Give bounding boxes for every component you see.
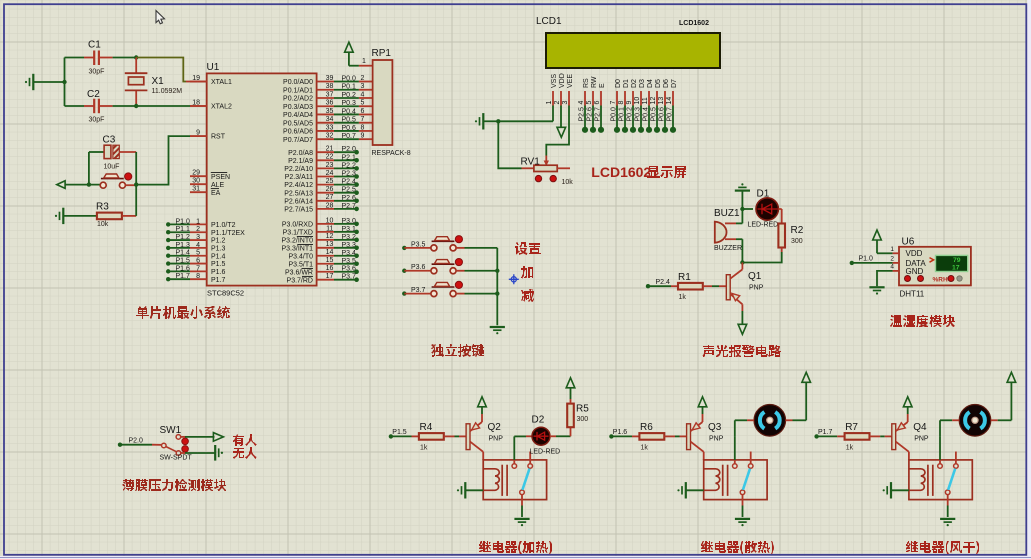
svg-text:D7: D7 [671, 79, 678, 88]
svg-text:SW-SPDT: SW-SPDT [160, 455, 193, 462]
svg-text:D0: D0 [615, 79, 622, 88]
buzzer BUZ1 [741, 209, 743, 223]
svg-text:XTAL1: XTAL1 [211, 79, 232, 86]
svg-text:4: 4 [196, 242, 200, 249]
svg-text:D6: D6 [663, 79, 670, 88]
svg-text:U1: U1 [207, 62, 220, 73]
power VCC (R5) [570, 388, 572, 399]
svg-text:9: 9 [196, 130, 200, 137]
svg-text:EA: EA [211, 190, 221, 197]
ground (keys) [490, 326, 505, 328]
ground (R3) [62, 208, 64, 224]
resistor R5 [570, 427, 572, 431]
wire SW1 NO [181, 436, 185, 438]
relay box [483, 460, 546, 500]
svg-text:P1.5: P1.5 [176, 258, 191, 265]
svg-text:22: 22 [326, 154, 334, 161]
svg-text:RST: RST [211, 134, 226, 141]
wire button right [125, 184, 136, 186]
svg-text:P1.1: P1.1 [176, 226, 191, 233]
svg-text:35: 35 [326, 108, 334, 115]
svg-text:PNP: PNP [489, 436, 504, 443]
label inc [521, 266, 533, 279]
svg-text:P1.3: P1.3 [211, 245, 226, 252]
wire D2 to R5 [550, 435, 556, 437]
push buttons set/inc/dec [402, 246, 406, 250]
svg-text:C3: C3 [103, 135, 116, 146]
relay lever [522, 469, 529, 490]
svg-text:VEE: VEE [567, 74, 574, 88]
svg-text:11: 11 [326, 225, 333, 232]
wire relay common down [947, 495, 949, 506]
svg-text:30: 30 [192, 178, 200, 185]
potentiometer RV1 wiper [545, 156, 547, 164]
wire Q3 collector [703, 452, 705, 460]
power VCC (motor) [805, 382, 807, 420]
ground (LCD VSS) [482, 113, 484, 129]
svg-text:R1: R1 [678, 272, 691, 283]
svg-text:5: 5 [586, 101, 593, 105]
resistor R4 [412, 435, 419, 437]
svg-text:1: 1 [890, 246, 894, 253]
svg-text:P2.6/A14: P2.6/A14 [284, 198, 313, 205]
svg-text:17: 17 [326, 273, 334, 280]
svg-text:24: 24 [326, 170, 334, 177]
power VCC (RP1) [345, 42, 354, 52]
mcu U1 P2 pins [317, 151, 334, 153]
switch SW1 [162, 443, 167, 448]
title relay heat [479, 541, 552, 554]
relay contacts [938, 464, 943, 469]
svg-text:P1.7: P1.7 [176, 273, 191, 280]
svg-text:BUZZER: BUZZER [714, 245, 742, 252]
capacitor C1 [93, 51, 95, 66]
ground (XTAL caps) [32, 74, 34, 90]
label set [515, 242, 541, 255]
wire C3 left down [88, 152, 90, 185]
svg-text:C1: C1 [88, 40, 101, 51]
svg-text:P3.4/T0: P3.4/T0 [288, 253, 313, 260]
title pressure section [122, 479, 226, 491]
transistor Q4 [892, 424, 896, 450]
led D1 [742, 208, 753, 210]
svg-text:P0.7: P0.7 [666, 107, 673, 122]
svg-text:P3.1/TXD: P3.1/TXD [283, 229, 313, 236]
resistor R1 [671, 285, 678, 287]
svg-text:P1.0: P1.0 [859, 256, 874, 263]
svg-text:P2.5/A13: P2.5/A13 [284, 190, 313, 197]
arrow reset out [57, 181, 65, 189]
svg-text:R5: R5 [576, 404, 589, 415]
svg-text:GND: GND [906, 267, 924, 276]
title MCU section [136, 306, 230, 319]
svg-text:P3.5/T1: P3.5/T1 [288, 261, 313, 268]
resistor R7 [837, 435, 844, 437]
svg-text:P0.5: P0.5 [650, 107, 657, 122]
svg-text:P1.0/T2: P1.0/T2 [211, 222, 236, 229]
mouse cursor [156, 11, 165, 24]
svg-text:P1.0: P1.0 [176, 218, 191, 225]
label dec [521, 289, 534, 302]
wire P1.5 [389, 434, 393, 438]
ground (relay common) [514, 518, 529, 520]
svg-text:P1.2: P1.2 [176, 234, 191, 241]
svg-text:7: 7 [610, 101, 617, 105]
svg-text:P1.7: P1.7 [211, 277, 226, 284]
wire C1 left [65, 57, 85, 59]
resistor R3 [97, 213, 122, 220]
svg-text:P3.7/RD: P3.7/RD [287, 277, 313, 284]
svg-text:79: 79 [953, 257, 961, 264]
svg-text:P0.4/AD4: P0.4/AD4 [283, 112, 313, 119]
svg-text:P1.2: P1.2 [211, 238, 226, 245]
svg-text:3: 3 [562, 101, 569, 105]
svg-text:P0.4: P0.4 [642, 107, 649, 122]
svg-text:U6: U6 [902, 237, 915, 248]
svg-text:P0.3/AD3: P0.3/AD3 [283, 104, 313, 111]
power VCC (U6) [873, 230, 882, 240]
svg-text:30pF: 30pF [89, 117, 105, 124]
push button RESET [101, 178, 124, 180]
svg-text:P0.3: P0.3 [634, 107, 641, 122]
ground (relay coil) [685, 482, 687, 498]
svg-text:P1.6: P1.6 [613, 429, 628, 436]
svg-text:VDD: VDD [559, 73, 566, 88]
capacitor C2 [93, 99, 95, 114]
svg-text:P0.2/AD2: P0.2/AD2 [283, 96, 313, 103]
wire relay common down [521, 495, 523, 506]
svg-text:P1.6: P1.6 [176, 265, 191, 272]
svg-text:Q3: Q3 [708, 422, 722, 433]
mcu U1 P0 pins + wires to RP1 [317, 81, 334, 83]
svg-text:LCD1602: LCD1602 [679, 20, 709, 27]
wire VSS [552, 106, 554, 122]
svg-text:8: 8 [361, 124, 365, 131]
svg-text:P2.1/A9: P2.1/A9 [288, 158, 313, 165]
dht pins [893, 252, 899, 254]
svg-text:12: 12 [650, 97, 657, 105]
svg-text:D5: D5 [655, 79, 662, 88]
svg-text:34: 34 [326, 116, 334, 123]
mcu U1 P1 pins [166, 222, 170, 226]
svg-text:P3.3/INT1: P3.3/INT1 [281, 245, 313, 252]
svg-text:4: 4 [361, 91, 365, 98]
svg-text:18: 18 [192, 100, 200, 107]
svg-text:21: 21 [326, 146, 334, 153]
svg-text:R6: R6 [640, 422, 653, 433]
wire VEE to wiper [546, 106, 569, 156]
wire relay pole to load [734, 460, 736, 464]
ground (relay common) [735, 518, 750, 520]
svg-text:P2.3/A11: P2.3/A11 [285, 174, 313, 181]
svg-text:P2.7/A15: P2.7/A15 [284, 207, 313, 214]
svg-text:11.0592M: 11.0592M [152, 88, 183, 95]
svg-text:14: 14 [326, 249, 334, 256]
svg-text:RP1: RP1 [372, 48, 392, 59]
svg-text:2: 2 [196, 226, 200, 233]
svg-text:D1: D1 [623, 79, 630, 88]
svg-text:4: 4 [578, 101, 585, 105]
transistor Q3 [687, 424, 691, 450]
ground (relay common) [940, 518, 955, 520]
wire Q1 emitter down [741, 304, 743, 311]
svg-text:5: 5 [196, 250, 200, 257]
node XTAL caps common [62, 80, 66, 84]
wire C1 to X1 node [99, 57, 113, 59]
svg-text:9: 9 [361, 133, 365, 140]
svg-text:6: 6 [196, 258, 200, 265]
wire Q4 collector [908, 452, 910, 460]
svg-text:D3: D3 [639, 79, 646, 88]
svg-text:7: 7 [361, 116, 365, 123]
svg-text:1k: 1k [679, 294, 687, 301]
dht buttons [905, 276, 911, 282]
wire RST net [136, 136, 190, 185]
svg-text:P1.4: P1.4 [211, 253, 226, 260]
wire C2 to X1 node [99, 105, 113, 107]
svg-text:LED-RED: LED-RED [530, 449, 561, 456]
svg-text:P2.7: P2.7 [594, 107, 601, 122]
wire relay pole to load [513, 460, 515, 464]
relay contacts [733, 464, 738, 469]
wire C2 left [65, 105, 85, 107]
wire R3 to node [122, 215, 136, 217]
transistor Q2 [466, 424, 470, 450]
svg-text:27: 27 [326, 194, 334, 201]
power down (LCD VDD) [560, 106, 562, 128]
resistor R6 [632, 435, 639, 437]
svg-text:9: 9 [626, 101, 633, 105]
crystal X1 [135, 58, 137, 73]
svg-text:R3: R3 [96, 202, 109, 213]
svg-text:36: 36 [326, 100, 334, 107]
svg-text:1k: 1k [846, 445, 854, 452]
wire P1.6 [609, 434, 613, 438]
svg-text:39: 39 [326, 75, 334, 82]
wire SW1 NC [181, 452, 185, 454]
power VCC (Q4) [907, 414, 909, 422]
power rail (alarm) [735, 190, 750, 192]
svg-text:5: 5 [361, 100, 365, 107]
svg-text:1k: 1k [641, 445, 649, 452]
svg-text:13: 13 [658, 97, 665, 105]
power down (Q1) [738, 324, 747, 334]
svg-text:38: 38 [326, 83, 334, 90]
svg-text:P3.2/INT0: P3.2/INT0 [281, 237, 313, 244]
lcd screen [546, 33, 720, 68]
svg-text:P2.4: P2.4 [656, 279, 671, 286]
power VCC (Q3) [702, 414, 704, 422]
svg-text:29: 29 [192, 170, 200, 177]
node Q1 collector [740, 260, 744, 264]
svg-text:8: 8 [196, 273, 200, 280]
title relay 散热 [700, 541, 774, 554]
svg-text:R4: R4 [420, 422, 433, 433]
svg-text:RESPACK-8: RESPACK-8 [372, 150, 411, 157]
svg-text:XTAL2: XTAL2 [211, 104, 232, 111]
svg-text:X1: X1 [152, 76, 165, 87]
svg-text:P2.6: P2.6 [586, 107, 593, 122]
wire P2.4 [646, 284, 650, 288]
svg-text:P1.3: P1.3 [176, 242, 191, 249]
power right (occupied) [213, 433, 223, 442]
ground right (vacant) [214, 445, 216, 461]
svg-text:P2.2/A10: P2.2/A10 [284, 166, 313, 173]
svg-text:P1.6: P1.6 [211, 269, 226, 276]
svg-text:P3.6/WR: P3.6/WR [285, 269, 313, 276]
svg-text:D4: D4 [647, 79, 654, 88]
label vacant [233, 447, 257, 459]
svg-text:10: 10 [326, 217, 334, 224]
svg-text:10uF: 10uF [104, 164, 120, 171]
svg-text:300: 300 [577, 416, 589, 423]
lcd data/control wires [584, 106, 586, 130]
svg-text:DHT11: DHT11 [900, 290, 925, 299]
svg-text:P1.7: P1.7 [818, 429, 833, 436]
wire GND U6 [877, 271, 893, 286]
wire RV1 left [498, 121, 521, 168]
ground (U6) [869, 286, 884, 288]
node X1 top [134, 55, 138, 59]
relay coil [909, 469, 925, 491]
svg-text:LCD1602: LCD1602 [591, 164, 651, 180]
relay coil [704, 469, 720, 491]
node X1 bottom [134, 104, 138, 108]
svg-text:PSEN: PSEN [211, 174, 230, 181]
svg-text:7: 7 [196, 265, 200, 272]
power VCC (motor) [1010, 382, 1012, 420]
svg-text:STC89C52: STC89C52 [207, 289, 244, 298]
wire XTAL1 net [136, 58, 186, 82]
svg-text:PNP: PNP [914, 436, 929, 443]
wire R2 down [781, 248, 783, 253]
svg-text:1k: 1k [420, 445, 428, 452]
relay box [909, 460, 972, 500]
wire relay pole to load [939, 460, 941, 464]
svg-text:Q4: Q4 [913, 422, 927, 433]
node reset left [87, 182, 91, 186]
wire BUZ bottom [741, 239, 743, 262]
svg-text:P0.1/AD1: P0.1/AD1 [283, 87, 313, 94]
svg-text:23: 23 [326, 162, 334, 169]
svg-text:BUZ1: BUZ1 [714, 208, 740, 219]
label occupied [233, 434, 257, 446]
svg-text:RV1: RV1 [521, 157, 541, 168]
title relay 风干 [906, 541, 979, 554]
svg-text:Q2: Q2 [488, 422, 502, 433]
svg-text:LED-RED: LED-RED [748, 222, 779, 229]
svg-text:P1.5: P1.5 [211, 261, 226, 268]
wire keys common [496, 248, 498, 325]
svg-text:D1: D1 [757, 189, 770, 200]
svg-text:2: 2 [361, 75, 365, 82]
svg-text:P0.6/AD6: P0.6/AD6 [283, 129, 313, 136]
svg-text:30pF: 30pF [89, 69, 105, 76]
svg-text:8: 8 [618, 101, 625, 105]
resistor R2 [778, 224, 785, 248]
svg-text:D2: D2 [631, 79, 638, 88]
node D1/BUZ [740, 207, 744, 211]
svg-text:2: 2 [554, 101, 561, 105]
relay NO stub [750, 452, 752, 464]
svg-text:R2: R2 [791, 225, 804, 236]
svg-text:17: 17 [952, 265, 960, 272]
wire XTAL2 net [136, 105, 190, 107]
svg-text:RS: RS [583, 78, 590, 88]
transistor Q1 [726, 275, 730, 300]
mcu U1 body [207, 73, 317, 285]
svg-text:D2: D2 [532, 415, 545, 426]
svg-text:E: E [599, 83, 606, 88]
motor (散热) [754, 405, 786, 437]
wire relay common down [742, 495, 744, 506]
relay contacts [512, 464, 517, 469]
svg-text:P3.0/RXD: P3.0/RXD [282, 222, 313, 229]
svg-text:P2.0: P2.0 [129, 437, 144, 444]
relay coil [483, 469, 499, 491]
wire Q2 collector [482, 452, 484, 460]
svg-text:28: 28 [326, 202, 334, 209]
svg-text:1: 1 [196, 218, 200, 225]
svg-text:300: 300 [791, 238, 803, 245]
relay lever [948, 469, 955, 490]
wire P2.0 [118, 443, 122, 447]
motor (风干) [959, 405, 991, 437]
svg-text:P1.4: P1.4 [176, 250, 191, 257]
mcu U1 left control pins [190, 81, 207, 83]
svg-text:RW: RW [591, 76, 598, 88]
ground (relay coil) [890, 482, 892, 498]
led D2 [526, 435, 532, 437]
svg-text:2: 2 [890, 255, 894, 262]
svg-text:32: 32 [326, 133, 334, 140]
svg-text:P2.5: P2.5 [578, 107, 585, 122]
svg-text:3: 3 [196, 234, 200, 241]
svg-text:P0.7/AD7: P0.7/AD7 [283, 137, 313, 144]
svg-text:P0.1: P0.1 [618, 107, 625, 122]
dht U6 body [899, 247, 971, 286]
ground (relay coil) [464, 482, 466, 498]
svg-text:R7: R7 [845, 422, 858, 433]
power VCC (Q2) [481, 414, 483, 422]
relay NO stub [955, 452, 957, 464]
svg-text:P1.1/T2EX: P1.1/T2EX [211, 230, 245, 237]
svg-text:15: 15 [326, 257, 334, 264]
svg-text:10k: 10k [97, 221, 109, 228]
svg-text:3: 3 [361, 83, 365, 90]
svg-text:%RH: %RH [933, 276, 948, 283]
svg-text:33: 33 [326, 124, 334, 131]
svg-text:10: 10 [634, 97, 641, 105]
svg-text:6: 6 [594, 101, 601, 105]
svg-text:VSS: VSS [551, 74, 558, 88]
svg-text:P0.5/AD5: P0.5/AD5 [283, 120, 313, 127]
potentiometer RV1 [534, 165, 557, 171]
svg-text:P2.4/A12: P2.4/A12 [284, 182, 313, 189]
relay box [704, 460, 767, 500]
svg-text:4: 4 [890, 263, 894, 270]
svg-text:1: 1 [362, 58, 366, 65]
svg-text:19: 19 [192, 75, 200, 82]
wire D1 to R2 [778, 208, 781, 210]
svg-text:LCD1: LCD1 [536, 16, 562, 27]
title keys section [431, 344, 484, 357]
svg-text:P0.0: P0.0 [610, 107, 617, 122]
svg-text:13: 13 [326, 241, 334, 248]
node reset right [134, 182, 138, 186]
svg-text:P1.5: P1.5 [392, 429, 407, 436]
relay NO stub [529, 452, 531, 464]
